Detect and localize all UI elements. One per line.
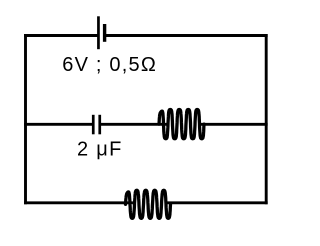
wire: top-right segment from battery bbox=[106, 34, 266, 37]
wire: middle segment from capacitor C1 to resistor R1 bbox=[101, 123, 165, 126]
wire: top-left segment to battery bbox=[26, 34, 98, 37]
resistor R2 (bottom branch coil) bbox=[126, 190, 171, 218]
wire: middle-right segment from resistor R1 bbox=[202, 123, 266, 126]
battery E1 (6 V, internal resistance 0.5 ohm) bbox=[97, 16, 106, 49]
svg-text:2 μF: 2 μF bbox=[77, 139, 123, 161]
wire: left vertical branch bbox=[24, 36, 27, 203]
resistor R1 (middle branch coil) bbox=[159, 110, 204, 139]
wire: right vertical branch bbox=[265, 36, 268, 203]
wire: middle-left segment to capacitor C1 bbox=[26, 123, 93, 126]
wire: bottom-right segment from resistor R2 bbox=[169, 201, 267, 204]
capacitor C1 bbox=[92, 115, 101, 135]
svg-text:6V ; 0,5Ω: 6V ; 0,5Ω bbox=[62, 54, 157, 76]
wire: bottom-left segment to resistor R2 bbox=[26, 201, 132, 204]
